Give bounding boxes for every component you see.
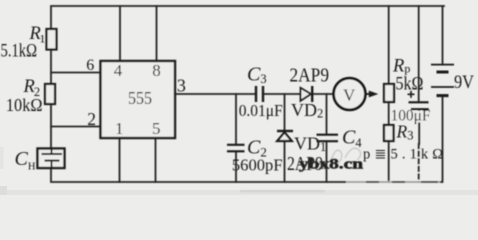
wire pin2 [51,126,101,128]
svg-text:V: V [343,86,356,105]
wire pin1 to bottom [119,138,121,182]
wire pin4 rail [119,6,121,61]
wire C4 branch [326,94,328,134]
svg-text:100μF: 100μF [391,108,431,125]
svg-text:2AP9: 2AP9 [290,66,330,87]
wire pin5 to bottom [155,138,157,182]
svg-text:10kΩ: 10kΩ [6,95,43,115]
left edge smudge [0,147,4,169]
resistor R1 [47,29,57,50]
svg-text:8: 8 [152,61,161,80]
wire Rp to R3 [388,102,390,125]
capacitor C4 [317,135,339,142]
wire pin8 rail [156,6,158,61]
diode VD1 [277,131,293,141]
wire VD1 to bottom [284,141,286,182]
capacitor CH [38,149,65,169]
ghost smudge under bottom rail [240,190,325,192]
wire pin6 [51,72,101,74]
wire bottom rail [51,97,443,182]
wire VD1 branch [284,94,286,130]
ghost watermark curve [331,148,361,166]
potentiometer Rp [384,84,394,102]
svg-text:5.1kΩ: 5.1kΩ [1,42,38,62]
wire R3 to bottom [388,141,390,182]
wire C2 branch [235,94,237,144]
battery 9V [431,65,454,96]
wire C4 to bottom [326,142,328,183]
wire 100uF rail [418,6,420,102]
svg-text:3: 3 [177,76,186,96]
resistor R2 [45,84,55,104]
capacitor C2 [227,145,245,152]
wire C2 to bottom [235,152,237,183]
washed bottom wire segment [346,181,440,184]
label 100uF [391,108,432,125]
capacitor C3 [256,86,263,102]
svg-text:5: 5 [152,119,161,138]
svg-text:0.01μF: 0.01μF [239,101,283,120]
svg-text:5kΩ: 5kΩ [396,75,424,95]
wiper arrow [366,91,378,98]
svg-text:4: 4 [114,61,123,80]
capacitor 100uF plus sign [408,91,415,98]
wire Rp rail top [388,6,390,84]
svg-text:2: 2 [87,109,96,129]
bottom scan band [0,190,478,195]
svg-text:6: 6 [86,57,94,74]
op-amp U1 555 timer box [101,61,176,138]
voltmeter V [334,78,366,110]
wire 100uF to bottom dashed [418,144,420,182]
wire C3 to VD2 [264,93,301,95]
wire pin3 [175,93,255,95]
svg-text:5600pF: 5600pF [232,155,283,174]
svg-text:1: 1 [115,119,124,138]
capacitor 100uF [409,102,429,109]
resistor R3 [384,125,394,141]
svg-text:9V: 9V [454,72,474,93]
wire top rail [51,6,444,149]
svg-text:ybx8.cn: ybx8.cn [299,157,363,173]
svg-text:555: 555 [128,88,152,108]
wire battery top [442,6,444,64]
wire VD2 to voltmeter [313,93,333,95]
diode VD2 [301,86,313,102]
